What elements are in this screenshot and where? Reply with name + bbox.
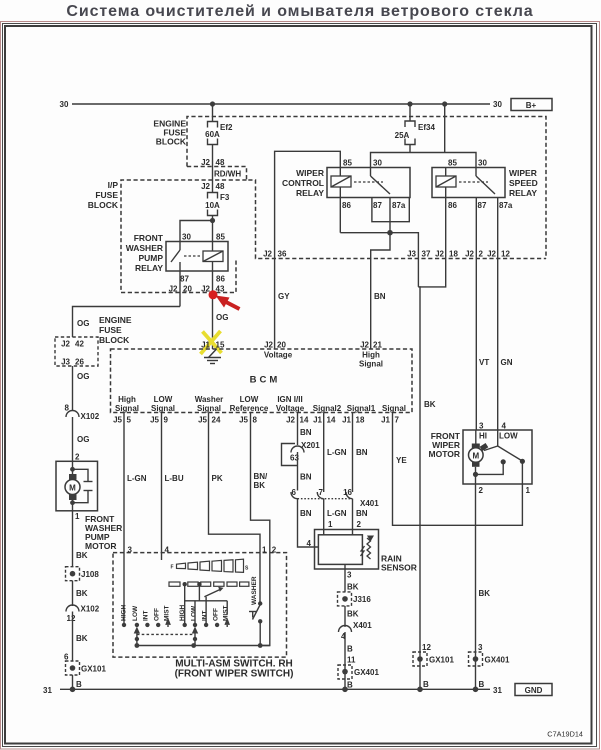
wire J5/5 L-GN to switch pin 3: [124, 413, 147, 553]
svg-text:Voltage: Voltage: [276, 404, 305, 413]
connector X201 pin 63: [282, 441, 321, 491]
svg-text:Signal1: Signal1: [347, 404, 376, 413]
BCM bottom pin numbers: [113, 416, 399, 425]
svg-text:INT: INT: [143, 611, 150, 622]
svg-text:GN: GN: [501, 358, 513, 367]
svg-text:24: 24: [212, 416, 221, 425]
svg-text:B+: B+: [526, 101, 537, 110]
svg-text:WASHER: WASHER: [126, 243, 163, 253]
svg-text:J5: J5: [113, 416, 122, 425]
svg-text:B: B: [479, 680, 485, 689]
svg-text:X401: X401: [360, 499, 379, 508]
svg-text:1: 1: [75, 512, 80, 521]
svg-text:J1: J1: [381, 416, 390, 425]
wire control relay 86 to ground chain: [340, 198, 418, 287]
svg-text:4: 4: [502, 422, 507, 431]
svg-text:L-BU: L-BU: [165, 474, 184, 483]
BCM top pin J2/21 high signal: [359, 341, 383, 369]
fuse F3 10A: [205, 193, 230, 216]
svg-text:8: 8: [253, 416, 258, 425]
svg-text:WIPER: WIPER: [296, 168, 324, 178]
svg-text:J5: J5: [198, 416, 207, 425]
svg-text:J2: J2: [263, 250, 272, 259]
switch selector arrows and bus: [134, 627, 270, 648]
relay: wiper speed relay: [432, 159, 538, 211]
svg-text:B: B: [423, 680, 429, 689]
svg-text:M: M: [472, 452, 479, 461]
switch position labels left group: [121, 604, 171, 627]
svg-text:20: 20: [183, 285, 192, 294]
rain sensor: [315, 530, 417, 573]
svg-text:YE: YE: [396, 456, 407, 465]
svg-text:BLOCK: BLOCK: [156, 137, 187, 147]
svg-text:X201: X201: [301, 441, 320, 450]
svg-text:ENGINE: ENGINE: [99, 315, 132, 325]
svg-text:11: 11: [347, 656, 356, 665]
svg-text:BCM: BCM: [250, 375, 281, 386]
svg-text:GY: GY: [278, 292, 290, 301]
wire Ef2 to F3, RD/WH: [201, 145, 241, 194]
svg-text:F3: F3: [220, 193, 230, 202]
I/P fuse block (dashed outline): [88, 180, 247, 293]
wire OG left column: [77, 319, 89, 328]
svg-text:I/P: I/P: [108, 180, 119, 190]
svg-text:87: 87: [478, 201, 487, 210]
svg-text:14: 14: [327, 416, 336, 425]
svg-text:BN: BN: [300, 473, 312, 482]
svg-text:85: 85: [343, 159, 352, 168]
switch contact bar row: [169, 582, 249, 586]
svg-text:J5: J5: [239, 416, 248, 425]
wire rail to relays bus: [371, 104, 477, 168]
svg-text:VT: VT: [479, 358, 489, 367]
wire J5/24 PK to switch pin 1: [209, 413, 261, 553]
svg-text:25A: 25A: [395, 131, 410, 140]
BCM bottom pin labels: [115, 395, 406, 413]
svg-text:BN: BN: [300, 509, 312, 518]
svg-text:GND: GND: [525, 686, 543, 695]
svg-text:30: 30: [60, 100, 69, 109]
svg-text:RELAY: RELAY: [296, 188, 324, 198]
svg-text:CONTROL: CONTROL: [282, 178, 324, 188]
svg-text:LOW: LOW: [154, 395, 173, 404]
svg-text:F: F: [171, 565, 174, 571]
svg-text:3: 3: [347, 571, 352, 580]
svg-text:J5: J5: [150, 416, 159, 425]
svg-text:60A: 60A: [205, 130, 220, 139]
svg-text:M: M: [69, 484, 76, 493]
svg-text:BK: BK: [479, 589, 491, 598]
svg-text:J2: J2: [201, 158, 210, 167]
svg-text:LOW: LOW: [499, 432, 518, 441]
svg-text:31: 31: [43, 686, 52, 695]
svg-text:6: 6: [292, 488, 297, 497]
svg-text:5: 5: [127, 416, 132, 425]
ground GX101 pin 6: [64, 653, 106, 690]
svg-text:J2: J2: [435, 250, 444, 259]
svg-text:Ef2: Ef2: [220, 123, 233, 132]
svg-text:High: High: [362, 351, 380, 360]
svg-text:OFF: OFF: [213, 608, 220, 621]
ground GX401 pin 3: [469, 643, 510, 689]
svg-text:Voltage: Voltage: [264, 351, 293, 360]
svg-text:J2: J2: [487, 250, 496, 259]
svg-text:LOW: LOW: [191, 605, 198, 621]
svg-text:BN: BN: [356, 448, 368, 457]
svg-text:PUMP: PUMP: [138, 253, 163, 263]
svg-text:X102: X102: [81, 412, 100, 421]
switch pin numbers: [128, 546, 277, 555]
svg-text:J1: J1: [201, 341, 210, 350]
svg-text:37: 37: [422, 250, 431, 259]
svg-text:Signal: Signal: [359, 360, 383, 369]
svg-text:PK: PK: [212, 474, 223, 483]
svg-text:3: 3: [478, 643, 483, 652]
front wiper motor: [429, 422, 532, 496]
svg-text:FUSE: FUSE: [95, 190, 118, 200]
svg-text:BK: BK: [76, 551, 88, 560]
svg-text:High: High: [118, 395, 136, 404]
svg-text:B: B: [76, 680, 82, 689]
svg-text:C7A19D14: C7A19D14: [547, 730, 583, 739]
switch washer contact: [249, 576, 262, 645]
red dot annotation: [209, 290, 218, 299]
svg-text:4: 4: [165, 546, 170, 555]
wire labels GY BN VT GN BK: [278, 292, 513, 409]
switch pin 2 wire to bus: [260, 553, 270, 646]
svg-text:86: 86: [216, 275, 225, 284]
svg-text:3: 3: [128, 546, 133, 555]
svg-text:30: 30: [182, 233, 191, 242]
svg-text:HI: HI: [479, 432, 487, 441]
wire J5/9 L-BU to switch pin 4: [162, 413, 184, 553]
switch pin 3 wire high contact: [122, 553, 126, 628]
svg-text:J316: J316: [353, 595, 371, 604]
ground GX101 pin 12: [413, 643, 454, 689]
svg-text:L-GN: L-GN: [327, 509, 347, 518]
svg-text:LOW: LOW: [240, 395, 259, 404]
svg-text:J2: J2: [201, 285, 210, 294]
svg-text:RELAY: RELAY: [509, 188, 537, 198]
node GND: [515, 684, 552, 696]
connector X102 pin 8: [65, 404, 100, 462]
connector labels on engine fuse block boundary: [263, 250, 510, 259]
svg-text:BN: BN: [356, 509, 368, 518]
svg-text:J2: J2: [465, 250, 474, 259]
svg-text:18: 18: [356, 416, 365, 425]
wire from rail to fuse Ef2: [212, 104, 214, 122]
svg-text:4: 4: [307, 539, 312, 548]
wire speed relay 87 to VT: [475, 198, 477, 431]
ground GX401 pin 11: [338, 656, 379, 690]
svg-text:2: 2: [357, 520, 362, 529]
connector X401 pin 4: [339, 621, 373, 689]
svg-text:BK: BK: [76, 589, 88, 598]
svg-text:Signal: Signal: [197, 404, 221, 413]
svg-text:(FRONT WIPER SWITCH): (FRONT WIPER SWITCH): [175, 669, 294, 680]
svg-text:BN: BN: [374, 292, 386, 301]
svg-text:GX401: GX401: [354, 668, 379, 677]
BCM dashed box: [111, 349, 413, 413]
switch pin 4 stub: [161, 553, 163, 560]
svg-text:12: 12: [67, 614, 76, 623]
svg-text:X401: X401: [353, 621, 372, 630]
svg-text:L-GN: L-GN: [327, 448, 347, 457]
svg-text:6: 6: [64, 653, 69, 662]
svg-text:2: 2: [272, 546, 277, 555]
BCM top pin J2/20 voltage: [264, 341, 293, 360]
svg-text:Signal2: Signal2: [313, 404, 342, 413]
relay: wiper control relay: [282, 159, 410, 211]
svg-text:J3: J3: [61, 358, 70, 367]
fuse Ef34 25A: [395, 104, 436, 153]
node J2/43 with label: [201, 285, 225, 294]
wire J1/18 BN to rain sensor 2: [353, 413, 368, 535]
svg-text:Signal: Signal: [382, 404, 406, 413]
engine fuse block (dashed outline incl. relay area): [153, 117, 546, 259]
svg-text:J2: J2: [264, 341, 273, 350]
svg-text:MIST: MIST: [164, 605, 171, 621]
svg-text:48: 48: [216, 158, 225, 167]
svg-text:1: 1: [526, 486, 531, 495]
svg-text:J3: J3: [407, 250, 416, 259]
node 30 top power rail: [60, 100, 503, 109]
svg-text:2: 2: [479, 486, 484, 495]
fuse Ef2 60A: [205, 122, 233, 145]
svg-text:42: 42: [75, 340, 84, 349]
svg-text:7: 7: [395, 416, 400, 425]
svg-text:J2: J2: [169, 285, 178, 294]
svg-text:85: 85: [216, 233, 225, 242]
svg-text:GX101: GX101: [429, 656, 454, 665]
svg-text:BK: BK: [254, 481, 266, 490]
node B+: [511, 99, 552, 111]
svg-text:BN/: BN/: [254, 472, 269, 481]
wire relay 87 to left column: [73, 271, 193, 337]
svg-text:BK: BK: [424, 400, 436, 409]
svg-text:J2: J2: [360, 341, 369, 350]
wire OG relay 86 down to BCM J1/15: [213, 293, 229, 350]
motor: front washer pump motor: [56, 461, 122, 551]
svg-text:3: 3: [479, 422, 484, 431]
svg-text:MOTOR: MOTOR: [85, 541, 116, 551]
svg-text:31: 31: [493, 686, 502, 695]
wire F3 down to washer pump relay, junction: [180, 216, 215, 242]
connector X401 row pins 6 7 16: [291, 488, 379, 508]
wire BN to rain sensor 4: [298, 499, 319, 548]
svg-text:20: 20: [277, 341, 286, 350]
svg-text:12: 12: [422, 643, 431, 652]
svg-text:30: 30: [373, 159, 382, 168]
svg-text:Washer: Washer: [195, 395, 224, 404]
svg-text:BK: BK: [347, 583, 359, 592]
svg-text:LOW: LOW: [132, 605, 139, 621]
wire motor pin 2 BK to ground: [476, 484, 491, 689]
svg-text:36: 36: [278, 250, 287, 259]
wire J2/36 up-over to control relay 85: [275, 151, 341, 349]
svg-text:85: 85: [448, 159, 457, 168]
svg-text:18: 18: [449, 250, 458, 259]
switch pin 1 wire washer feed: [259, 553, 261, 604]
svg-text:WIPER: WIPER: [509, 168, 537, 178]
svg-text:BLOCK: BLOCK: [99, 335, 130, 345]
svg-text:OG: OG: [77, 319, 89, 328]
connector J2/42 J3/26: [55, 337, 98, 410]
svg-text:BK: BK: [76, 634, 88, 643]
svg-text:MOTOR: MOTOR: [429, 449, 460, 459]
svg-text:SENSOR: SENSOR: [381, 563, 417, 573]
svg-text:16: 16: [343, 488, 352, 497]
svg-text:87: 87: [373, 201, 382, 210]
wire J2/14 BN chain to rain sensor pin 4: [298, 413, 312, 446]
svg-text:B: B: [347, 681, 353, 690]
svg-text:J2: J2: [201, 182, 210, 191]
svg-text:86: 86: [342, 201, 351, 210]
svg-text:BK: BK: [347, 610, 359, 619]
red arrow annotation: [216, 296, 240, 310]
wire speed relay 86 to ground chain: [418, 198, 445, 690]
svg-text:15: 15: [216, 341, 225, 350]
svg-text:Signal: Signal: [151, 404, 175, 413]
wire BK washer motor to ground: [73, 511, 88, 567]
svg-text:FUSE: FUSE: [99, 325, 122, 335]
svg-text:Reference: Reference: [230, 404, 269, 413]
svg-text:30: 30: [493, 100, 502, 109]
svg-text:10A: 10A: [205, 201, 220, 210]
svg-text:B: B: [347, 645, 353, 654]
switch internal wiring: [185, 584, 228, 625]
switch detent trapezoids F..S: [171, 559, 250, 572]
svg-text:BLOCK: BLOCK: [88, 200, 119, 210]
svg-text:HIGH: HIGH: [121, 604, 128, 621]
svg-text:WASHER: WASHER: [251, 576, 258, 605]
svg-text:48: 48: [216, 182, 225, 191]
svg-text:J1: J1: [313, 416, 322, 425]
svg-text:2: 2: [479, 250, 484, 259]
svg-text:IGN I/II: IGN I/II: [277, 395, 302, 404]
svg-text:30: 30: [478, 159, 487, 168]
svg-text:GX401: GX401: [485, 656, 510, 665]
wire speed relay 87a to GN: [497, 198, 499, 431]
svg-text:1: 1: [328, 520, 333, 529]
svg-text:9: 9: [164, 416, 169, 425]
svg-text:7: 7: [319, 488, 324, 497]
svg-text:RD/WH: RD/WH: [214, 170, 241, 179]
svg-text:INT: INT: [202, 611, 209, 622]
svg-text:86: 86: [448, 201, 457, 210]
svg-text:87: 87: [180, 275, 189, 284]
svg-text:RELAY: RELAY: [135, 263, 163, 273]
svg-text:87a: 87a: [392, 201, 406, 210]
relay K: front washer pump relay: [126, 233, 228, 293]
svg-text:Система очистителей и омывател: Система очистителей и омывателя ветровог…: [66, 3, 533, 20]
BCM top pin J1/15 with internal ground: [201, 341, 225, 364]
svg-text:GX101: GX101: [81, 665, 106, 674]
svg-text:J2: J2: [286, 416, 295, 425]
splice J316: [338, 592, 372, 627]
svg-text:S: S: [245, 566, 249, 572]
wire J5/8 BN/BK to switch pin 2: [251, 413, 270, 553]
svg-text:J2: J2: [61, 340, 70, 349]
wire J1/7 YE to wiper motor pin 1: [393, 413, 523, 526]
svg-text:MIST: MIST: [223, 605, 230, 621]
svg-text:2: 2: [75, 453, 80, 462]
svg-text:FRONT: FRONT: [134, 233, 164, 243]
second engine fuse block label (left): [99, 315, 132, 345]
svg-text:OG: OG: [216, 313, 228, 322]
svg-text:BN: BN: [300, 428, 312, 437]
rain sensor pin 3 to ground chain: [345, 564, 359, 592]
svg-text:OG: OG: [77, 435, 89, 444]
svg-text:J108: J108: [81, 570, 99, 579]
svg-text:OG: OG: [77, 372, 89, 381]
svg-text:87a: 87a: [499, 201, 513, 210]
svg-text:SPEED: SPEED: [509, 178, 538, 188]
yellow X annotation: [201, 331, 222, 354]
svg-text:1: 1: [262, 546, 267, 555]
svg-text:OFF: OFF: [154, 608, 161, 621]
splice J108: [66, 567, 100, 606]
svg-text:43: 43: [216, 285, 225, 294]
svg-text:Ef34: Ef34: [418, 123, 435, 132]
svg-text:J1: J1: [342, 416, 351, 425]
svg-text:12: 12: [501, 250, 510, 259]
svg-text:21: 21: [373, 341, 382, 350]
multi-asm switch dashed box: [113, 553, 293, 680]
svg-text:14: 14: [300, 416, 309, 425]
wire J1/14 L-GN to rain sensor 1: [324, 413, 347, 535]
svg-text:L-GN: L-GN: [127, 474, 147, 483]
connector X102 pin 12: [66, 605, 100, 662]
node 31 bottom ground rail: [43, 686, 502, 695]
control relay under-wiring 87/87a strap: [372, 198, 409, 236]
svg-text:X102: X102: [81, 605, 100, 614]
svg-text:Signal: Signal: [115, 404, 139, 413]
switch position labels right group: [179, 604, 230, 627]
wire high signal BCM J2/21 from strap junction: [371, 233, 390, 349]
svg-text:26: 26: [75, 358, 84, 367]
